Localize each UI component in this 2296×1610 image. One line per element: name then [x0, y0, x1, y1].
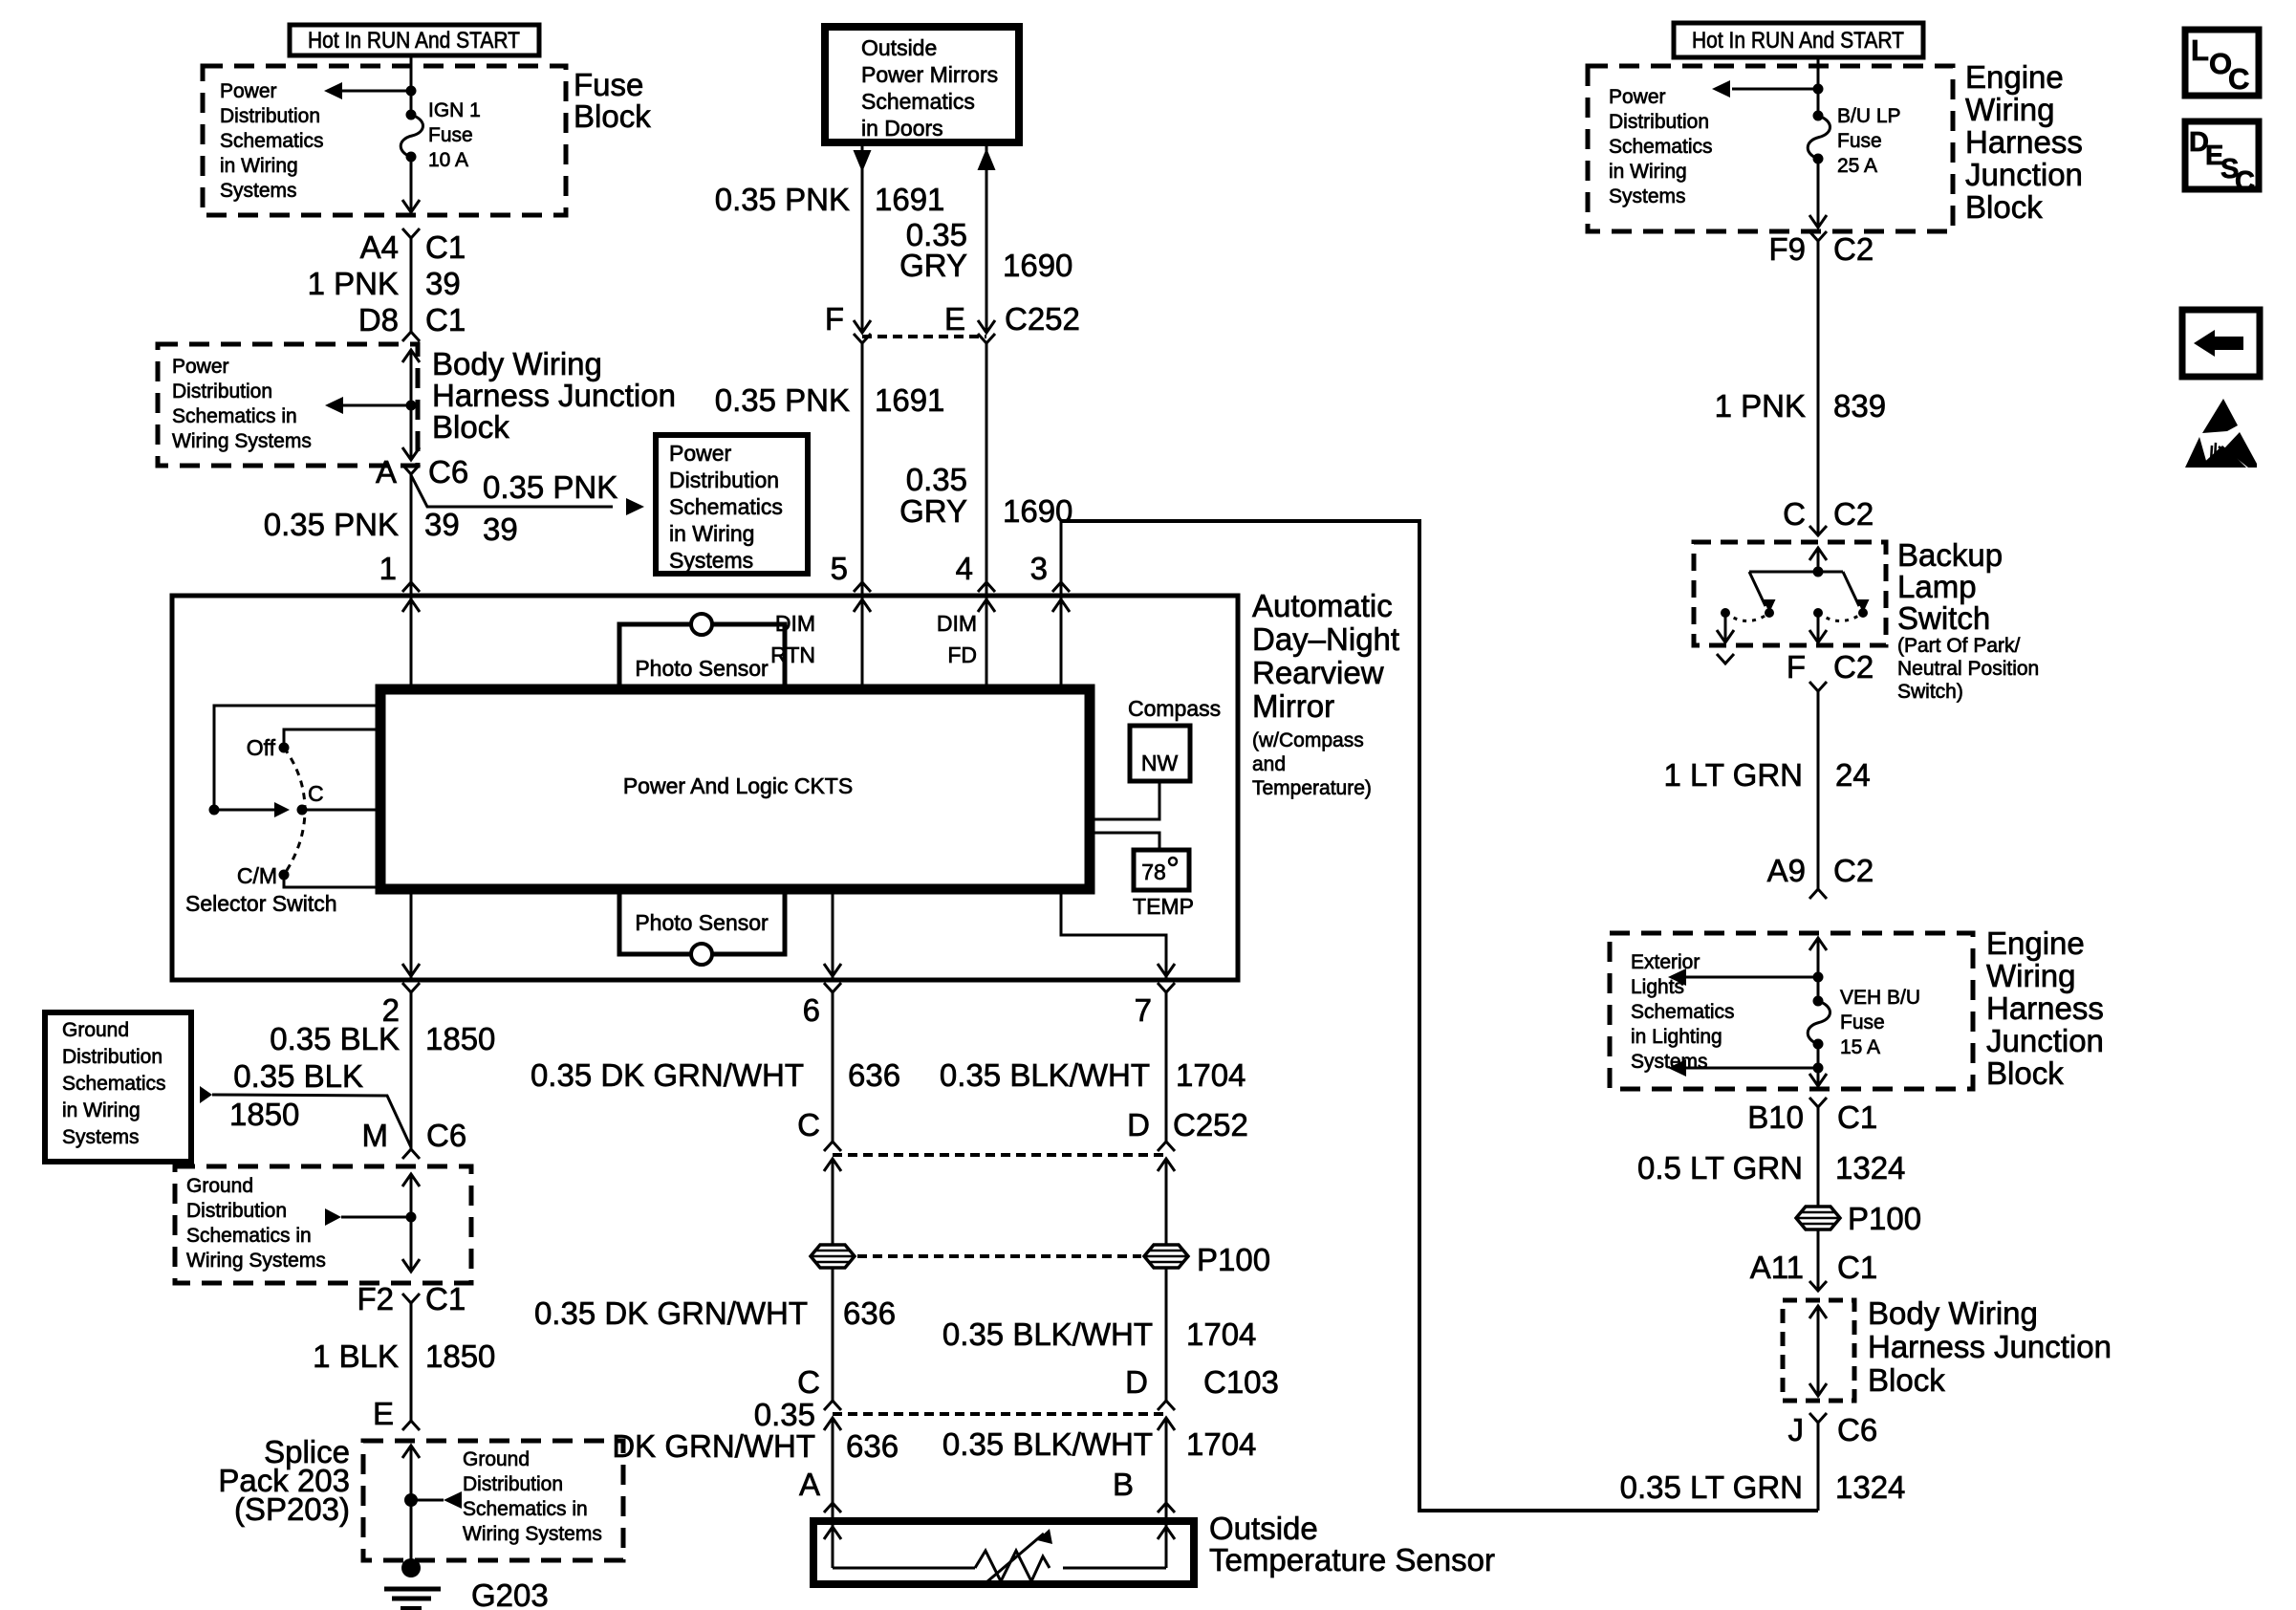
svg-text:Switch: Switch — [1897, 600, 1990, 636]
svg-text:0.35: 0.35 — [906, 462, 967, 497]
box: Ground Distribution Schematics in Wiring Systems (solid left) — [45, 1012, 191, 1162]
svg-text:Fuse: Fuse — [574, 67, 643, 102]
arrow to Power Distribution Schematics (fuse block) — [324, 82, 411, 99]
svg-text:D: D — [1127, 1107, 1150, 1142]
svg-text:Schematics: Schematics — [861, 89, 975, 114]
label: Fuse Block title — [574, 67, 651, 134]
pin 2 connector — [382, 983, 420, 1028]
backup lamp switch left throw stub — [1717, 613, 1734, 664]
selector switch dashed travel arc — [284, 748, 305, 875]
svg-text:C252: C252 — [1005, 301, 1080, 337]
svg-text:1691: 1691 — [875, 182, 944, 217]
svg-text:Harness: Harness — [1965, 124, 2083, 160]
svg-text:F2: F2 — [357, 1281, 394, 1316]
sensor internal wiring with pins A and B — [824, 1527, 1175, 1568]
wire: 0.35 DK GRN/WHT 636 C103 to sensor pin A — [612, 1397, 899, 1568]
svg-text:(Part Of Park/: (Part Of Park/ — [1897, 635, 2021, 657]
grommet P100 (right) — [1144, 1245, 1188, 1268]
pin 5 connector — [831, 551, 871, 592]
connector M / C6 — [362, 1118, 467, 1159]
svg-text:Switch): Switch) — [1897, 681, 1963, 703]
svg-text:636: 636 — [846, 1428, 899, 1464]
svg-text:A: A — [799, 1467, 820, 1502]
svg-text:F: F — [1787, 649, 1806, 685]
svg-text:Power Mirrors: Power Mirrors — [861, 62, 998, 87]
label: P100 with dashed link — [857, 1242, 1270, 1277]
connector C252 (F/E) inline — [825, 301, 1080, 343]
svg-text:Exterior: Exterior — [1631, 951, 1700, 973]
svg-text:Day–Night: Day–Night — [1252, 621, 1399, 657]
thermistor RT (variable resistor) — [975, 1529, 1052, 1582]
svg-text:C2: C2 — [1833, 231, 1874, 267]
svg-text:Block: Block — [1965, 189, 2043, 225]
wire through ground distribution box — [402, 1174, 420, 1272]
svg-text:A11: A11 — [1750, 1250, 1804, 1285]
label: Outside Temperature Sensor title — [1209, 1511, 1495, 1577]
svg-text:C1: C1 — [425, 229, 466, 265]
junction above VEH fuse — [1813, 972, 1824, 983]
wire: 0.35 PNK 1691 from mirrors box down (F) — [715, 145, 945, 333]
svg-text:(w/Compass: (w/Compass — [1252, 729, 1364, 751]
wire into engine junction block (VEH B/U fuse) — [1809, 938, 1827, 1001]
mirror pin 7 wire inside — [1061, 889, 1175, 979]
svg-text:39: 39 — [424, 507, 460, 542]
svg-text:Fuse: Fuse — [1840, 1012, 1885, 1033]
svg-text:0.35 BLK: 0.35 BLK — [270, 1021, 400, 1056]
label: Engine Wiring Harness Junction Block title (top) — [1965, 59, 2083, 225]
svg-text:636: 636 — [843, 1295, 896, 1331]
connector E (splice pack) — [373, 1396, 420, 1431]
connector F9 / C2 — [1768, 231, 1874, 267]
svg-text:IGN 1: IGN 1 — [428, 99, 481, 121]
svg-text:0.35 LT GRN: 0.35 LT GRN — [1620, 1469, 1803, 1505]
svg-text:636: 636 — [848, 1057, 900, 1093]
svg-text:Systems: Systems — [62, 1126, 140, 1148]
svg-text:A4: A4 — [360, 229, 399, 265]
svg-text:Outside: Outside — [1209, 1511, 1318, 1546]
wire: 0.35 LT GRN 1324 to mirror pin 3 routing — [1620, 1423, 1906, 1511]
svg-text:Block: Block — [432, 409, 509, 445]
svg-text:1850: 1850 — [229, 1097, 299, 1132]
label: Power Distribution Schematics in Wiring Systems (engine junction) — [1609, 86, 1713, 207]
svg-text:Lights: Lights — [1631, 976, 1684, 998]
svg-text:1704: 1704 — [1186, 1426, 1256, 1462]
svg-text:Block: Block — [574, 98, 651, 134]
svg-text:25 A: 25 A — [1837, 155, 1877, 177]
junction in ground distribution box — [406, 1212, 417, 1223]
power and logic circuits box U1 — [380, 689, 1090, 889]
svg-text:Power: Power — [669, 441, 732, 466]
connector J / C6 — [1788, 1412, 1878, 1447]
svg-text:TEMP: TEMP — [1133, 894, 1194, 919]
svg-text:B10: B10 — [1747, 1099, 1804, 1135]
mirror pin 6 wire inside — [824, 889, 841, 979]
wire: compass to logic box — [1090, 781, 1159, 819]
wire: 0.35 DK GRN/WHT 636 P100 to C103 — [534, 1268, 896, 1401]
selector switch contact Off — [247, 729, 380, 760]
sensor pin A connector — [799, 1467, 841, 1512]
svg-text:Power: Power — [172, 356, 229, 378]
wire: 0.35 PNK 39 to mirror pin 1 — [264, 474, 460, 689]
svg-text:1324: 1324 — [1835, 1150, 1905, 1186]
mirror pin 4 wire (DIM FD) — [978, 343, 995, 689]
wire: 0.5 LT GRN 1324 to P100 — [1637, 1107, 1905, 1207]
svg-text:in Wiring: in Wiring — [220, 155, 298, 177]
svg-text:1850: 1850 — [425, 1338, 495, 1374]
svg-text:Rearview: Rearview — [1252, 655, 1384, 690]
svg-text:Hot In RUN And START: Hot In RUN And START — [308, 28, 520, 54]
svg-text:0.35 BLK/WHT: 0.35 BLK/WHT — [942, 1426, 1153, 1462]
wire: mirror pin 3 to right column routing — [1061, 521, 1818, 1511]
svg-text:Distribution: Distribution — [172, 381, 272, 402]
wire: logic box to temp display — [1090, 833, 1159, 850]
body wiring harness junction block dashed outline (left) — [158, 344, 418, 466]
label: Engine Wiring Harness Junction Block title (mid) — [1986, 925, 2104, 1091]
svg-text:Lamp: Lamp — [1897, 569, 1977, 604]
svg-text:0.5 LT GRN: 0.5 LT GRN — [1637, 1150, 1803, 1186]
svg-text:C252: C252 — [1173, 1107, 1248, 1142]
svg-text:Schematics in: Schematics in — [172, 405, 297, 427]
svg-text:1 PNK: 1 PNK — [1715, 388, 1806, 424]
svg-text:Distribution: Distribution — [669, 468, 779, 492]
ground G203 — [384, 1558, 441, 1608]
svg-text:5: 5 — [831, 551, 848, 586]
svg-text:RTN: RTN — [770, 642, 815, 667]
connector B10 / C1 — [1747, 1098, 1877, 1135]
svg-text:DIM: DIM — [937, 611, 977, 636]
arrow to Power Distribution Schematics (engine junction) — [1712, 80, 1818, 98]
pin 1 connector of mirror — [379, 551, 420, 612]
svg-text:Wiring Systems: Wiring Systems — [463, 1523, 602, 1545]
arrow to Exterior Lights Schematics (lower) — [1668, 1059, 1818, 1077]
svg-text:M: M — [362, 1118, 389, 1153]
svg-text:Distribution: Distribution — [463, 1473, 563, 1495]
box: Outside Power Mirrors Schematics in Doors — [825, 27, 1019, 142]
svg-text:Systems: Systems — [220, 180, 297, 202]
icon: LOC — [2185, 30, 2259, 96]
wire: 0.35 BLK 1850 mirror pin 2 down — [270, 992, 495, 1149]
compass module NW — [1128, 696, 1221, 781]
pin 4 connector — [956, 551, 995, 592]
svg-text:in Wiring: in Wiring — [669, 521, 754, 546]
pin 3 connector — [1030, 551, 1070, 592]
svg-text:FD: FD — [947, 642, 977, 667]
svg-text:Neutral Position: Neutral Position — [1897, 658, 2039, 680]
fuse F: B/U LP Fuse 25 A — [1808, 111, 1830, 164]
svg-text:Temperature): Temperature) — [1252, 777, 1372, 799]
svg-text:Harness: Harness — [1986, 990, 2104, 1026]
svg-text:C: C — [308, 781, 324, 806]
wire through body junction block — [402, 350, 420, 460]
svg-text:3: 3 — [1030, 551, 1048, 586]
svg-text:C: C — [797, 1364, 820, 1400]
svg-text:Selector Switch: Selector Switch — [185, 891, 337, 916]
svg-text:D8: D8 — [358, 302, 399, 337]
junction in fuse block — [406, 86, 417, 97]
grommet P100 (left) — [811, 1245, 855, 1268]
wire: 0.35 BLK 1850 branch from ground distribution — [200, 1086, 411, 1147]
label: 0.35 BLK 1850 (branch) — [229, 1058, 363, 1132]
wire: fuse output to connector A4 — [402, 157, 420, 212]
connector A9 / C2 — [1767, 853, 1874, 899]
svg-text:in Lighting: in Lighting — [1631, 1026, 1722, 1048]
svg-text:839: 839 — [1833, 388, 1886, 424]
svg-text:E: E — [944, 301, 965, 337]
svg-text:P100: P100 — [1848, 1201, 1921, 1236]
svg-text:1 PNK: 1 PNK — [308, 266, 399, 301]
svg-text:Distribution: Distribution — [220, 105, 320, 127]
connector C252 (C/D) inline — [797, 1107, 1248, 1171]
svg-text:J: J — [1788, 1412, 1805, 1447]
wire: 0.35 DK GRN/WHT 636 pin 6 to C252 — [531, 992, 900, 1142]
wire: 0.35 BLK/WHT 1704 P100 to C103 — [942, 1268, 1257, 1401]
svg-text:B/U LP: B/U LP — [1837, 105, 1901, 127]
svg-text:Ground: Ground — [62, 1019, 129, 1041]
power label box: Hot In RUN And START (right) — [1674, 23, 1923, 57]
svg-text:39: 39 — [483, 511, 518, 547]
engine wiring harness junction block dashed outline (top right) — [1588, 66, 1953, 231]
wire: fuse output to connector F9 — [1809, 159, 1827, 228]
svg-text:Schematics in: Schematics in — [186, 1225, 312, 1247]
label: Power Distribution Schematics in Wiring Systems (fuse block) — [220, 80, 324, 202]
svg-text:Distribution: Distribution — [186, 1200, 287, 1222]
svg-text:VEH B/U: VEH B/U — [1840, 987, 1920, 1009]
svg-text:Distribution: Distribution — [1609, 111, 1709, 133]
icon: back arrow — [2182, 310, 2260, 377]
label: Ground Distribution Schematics in Wiring Systems (splice pack) — [463, 1448, 602, 1545]
svg-text:Wiring: Wiring — [1965, 92, 2055, 127]
connector D8 / C1 — [358, 302, 466, 341]
svg-text:0.35 BLK/WHT: 0.35 BLK/WHT — [942, 1316, 1153, 1352]
svg-text:Wiring Systems: Wiring Systems — [172, 430, 312, 452]
fuse F: VEH B/U Fuse 15 A — [1808, 996, 1830, 1050]
wire: 1 PNK 839 to backup lamp switch — [1715, 241, 1886, 535]
body wiring harness junction block dashed outline (small right) — [1783, 1300, 1854, 1401]
svg-text:10 A: 10 A — [428, 149, 468, 171]
pin 6 connector — [803, 983, 841, 1028]
svg-text:1690: 1690 — [1003, 248, 1072, 283]
svg-text:in Wiring: in Wiring — [1609, 161, 1687, 183]
selector switch wiper arrow toward C — [214, 802, 290, 817]
svg-text:C2: C2 — [1833, 853, 1874, 888]
label: IGN 1 Fuse 10 A — [428, 99, 481, 171]
svg-text:Mirror: Mirror — [1252, 688, 1334, 724]
svg-text:G203: G203 — [471, 1577, 549, 1610]
svg-text:Photo Sensor: Photo Sensor — [635, 656, 769, 681]
svg-text:NW: NW — [1141, 751, 1179, 775]
svg-text:DIM: DIM — [775, 611, 815, 636]
svg-text:L: L — [2191, 33, 2209, 67]
svg-text:C1: C1 — [1837, 1099, 1877, 1135]
svg-text:Compass: Compass — [1128, 696, 1221, 721]
svg-text:Power: Power — [220, 80, 277, 102]
wire: 1 LT GRN 24 to engine junction block — [1664, 691, 1871, 889]
selector switch contact C — [297, 781, 381, 816]
svg-text:7: 7 — [1135, 992, 1152, 1028]
svg-text:DK GRN/WHT: DK GRN/WHT — [612, 1428, 815, 1464]
splice junction SP203 — [404, 1493, 418, 1507]
svg-text:Schematics: Schematics — [220, 130, 324, 152]
label: DIM FD — [937, 611, 977, 667]
svg-text:0.35: 0.35 — [754, 1397, 815, 1432]
wire through small body junction block — [1809, 1306, 1827, 1396]
svg-text:0.35 BLK/WHT: 0.35 BLK/WHT — [940, 1057, 1150, 1093]
svg-text:Block: Block — [1868, 1362, 1945, 1398]
mirror pin 5 wire (DIM RTN) — [854, 343, 871, 689]
label: G203 — [471, 1577, 549, 1610]
connector A11 / C1 — [1750, 1250, 1877, 1291]
svg-text:C2: C2 — [1833, 649, 1874, 685]
svg-text:C/M: C/M — [237, 863, 277, 888]
label: Backup Lamp Switch title — [1897, 537, 2039, 703]
connector F2 / C1 — [357, 1281, 466, 1316]
wire: 1 BLK 1850 to splice pack — [313, 1303, 495, 1421]
svg-text:Ground: Ground — [463, 1448, 530, 1470]
svg-text:0.35 DK GRN/WHT: 0.35 DK GRN/WHT — [531, 1057, 804, 1093]
svg-text:24: 24 — [1835, 757, 1871, 793]
svg-text:in Wiring: in Wiring — [62, 1099, 141, 1121]
photo sensor (top) — [619, 614, 785, 689]
connector A / C6 — [376, 454, 468, 490]
selector switch wiper pole — [209, 805, 220, 816]
svg-text:0.35 PNK: 0.35 PNK — [715, 382, 850, 418]
label: Body Wiring Harness Junction Block title — [432, 346, 676, 445]
backup lamp switch dashed contact arcs — [1725, 613, 1863, 621]
svg-text:1324: 1324 — [1835, 1469, 1905, 1505]
svg-text:78: 78 — [1141, 859, 1166, 884]
junction below VEH fuse — [1813, 1063, 1824, 1074]
junction in engine junction block — [1813, 84, 1824, 95]
svg-text:F: F — [825, 301, 844, 337]
svg-text:C2: C2 — [1833, 496, 1874, 532]
svg-text:1 LT GRN: 1 LT GRN — [1664, 757, 1804, 793]
box: Power Distribution Schematics in Wiring Systems (solid) — [656, 435, 808, 574]
wire: pin 7 C252 to P100 — [1165, 1159, 1168, 1245]
arrow to Ground Distribution Schematics (splice pack) — [411, 1491, 462, 1509]
temperature display 78 deg — [1133, 850, 1194, 919]
splice pack 203 dashed outline — [363, 1441, 623, 1560]
engine wiring harness junction block dashed outline (mid right) — [1610, 933, 1973, 1089]
svg-text:Automatic: Automatic — [1252, 588, 1393, 623]
svg-text:C1: C1 — [425, 1281, 466, 1316]
svg-text:Systems: Systems — [669, 548, 753, 573]
wire through splice pack to ground — [402, 1446, 420, 1568]
selector switch contact C/M — [237, 863, 380, 888]
fuse block dashed outline — [203, 66, 566, 215]
svg-text:Harness Junction: Harness Junction — [432, 378, 676, 413]
wire: 0.35 GRY 1690 up to mirrors box (E) — [899, 145, 1072, 333]
svg-text:C: C — [797, 1107, 820, 1142]
wire: 0.35 GRY 1690 to mirror pin 4 — [899, 343, 1072, 582]
label: 0.35 PNK 39 (branch) — [483, 469, 617, 547]
svg-text:Body Wiring: Body Wiring — [432, 346, 602, 381]
label: Ground Distribution Schematics in Wiring Systems (mid box) — [186, 1175, 326, 1272]
pin 7 connector — [1135, 983, 1175, 1028]
svg-text:C103: C103 — [1203, 1364, 1279, 1400]
svg-text:Schematics: Schematics — [669, 494, 783, 519]
wire: 1 PNK 39 (fuse block to body junction) — [308, 238, 461, 332]
svg-text:C6: C6 — [426, 1118, 466, 1153]
svg-text:C: C — [1783, 496, 1806, 532]
svg-text:Harness Junction: Harness Junction — [1868, 1329, 2112, 1364]
fuse F: IGN 1 Fuse 10 A — [401, 110, 422, 163]
svg-text:4: 4 — [956, 551, 973, 586]
label: Exterior Lights Schematics in Lighting Systems — [1631, 951, 1735, 1073]
svg-text:E: E — [373, 1396, 394, 1431]
mirror pin 2 wire inside — [402, 889, 420, 979]
mirror pin 3 wire — [1052, 521, 1070, 689]
label: Selector Switch — [185, 891, 337, 916]
svg-text:Junction: Junction — [1965, 157, 2083, 192]
svg-text:Engine: Engine — [1965, 59, 2064, 95]
svg-text:Fuse: Fuse — [1837, 130, 1882, 152]
sensor pin B connector — [1113, 1467, 1175, 1512]
svg-text:C1: C1 — [425, 302, 466, 337]
photo sensor (bottom) — [619, 889, 785, 965]
arrow to Exterior Lights Schematics (upper) — [1668, 968, 1818, 986]
connector C / C2 (backup lamp switch) — [1783, 496, 1874, 535]
svg-text:0.35 PNK: 0.35 PNK — [715, 182, 850, 217]
ground distribution dashed box (mid left) — [175, 1166, 471, 1283]
wire: 0.35 PNK 1691 to mirror pin 5 — [715, 343, 945, 582]
svg-text:Power: Power — [1609, 86, 1666, 108]
backup lamp switch output wire — [1809, 613, 1827, 642]
svg-text:C6: C6 — [428, 454, 468, 490]
svg-text:GRY: GRY — [899, 493, 967, 529]
svg-text:Schematics: Schematics — [1631, 1001, 1735, 1023]
label: Power Distribution Schematics in Wiring Systems (body junction) — [172, 356, 312, 452]
svg-text:GRY: GRY — [899, 248, 967, 283]
wire: P100 to connector A11 — [1817, 1229, 1820, 1291]
svg-text:C: C — [2235, 166, 2255, 197]
label: Body Wiring Harness Junction Block title (right) — [1868, 1295, 2112, 1398]
icon: DESC — [2185, 121, 2259, 197]
svg-text:1850: 1850 — [425, 1021, 495, 1056]
svg-text:15 A: 15 A — [1840, 1036, 1880, 1058]
svg-text:C: C — [2228, 62, 2249, 96]
svg-text:Systems: Systems — [1631, 1051, 1708, 1073]
svg-text:Junction: Junction — [1986, 1023, 2104, 1058]
connector C103 (C/D) inline — [797, 1364, 1279, 1430]
backup lamp switch common feed — [1809, 548, 1827, 577]
arrow to Ground Distribution Schematics (mid left) — [325, 1208, 411, 1226]
svg-text:0.35 PNK: 0.35 PNK — [264, 507, 399, 542]
svg-text:Power And Logic CKTS: Power And Logic CKTS — [623, 773, 853, 798]
svg-text:Systems: Systems — [1609, 185, 1686, 207]
svg-text:Ground: Ground — [186, 1175, 253, 1197]
svg-text:Wiring Systems: Wiring Systems — [186, 1250, 326, 1272]
svg-text:1704: 1704 — [1176, 1057, 1245, 1093]
wire: feed into engine junction block — [1817, 57, 1820, 116]
selector switch wiper wire to logic box — [214, 706, 380, 810]
wire: 0.35 PNK 39 branch to power distribution — [411, 475, 644, 515]
svg-text:Schematics: Schematics — [1609, 136, 1713, 158]
svg-text:Body Wiring: Body Wiring — [1868, 1295, 2038, 1331]
label: DIM RTN — [770, 611, 815, 667]
svg-text:Schematics in: Schematics in — [463, 1498, 588, 1520]
connector A4 / C1 — [360, 228, 466, 265]
svg-text:0.35 BLK: 0.35 BLK — [233, 1058, 363, 1094]
svg-text:Backup: Backup — [1897, 537, 2003, 573]
label: VEH B/U Fuse 15 A — [1840, 987, 1920, 1058]
svg-text:B: B — [1113, 1467, 1134, 1502]
svg-text:and: and — [1252, 753, 1286, 775]
arrow to Power Distribution Schematics (body junction) — [325, 397, 411, 414]
wire: ignition feed into fuse block — [410, 55, 413, 115]
svg-text:Wiring: Wiring — [1986, 958, 2076, 993]
label: Automatic Day-Night Rearview Mirror title — [1252, 588, 1399, 799]
svg-text:Photo Sensor: Photo Sensor — [635, 910, 769, 935]
